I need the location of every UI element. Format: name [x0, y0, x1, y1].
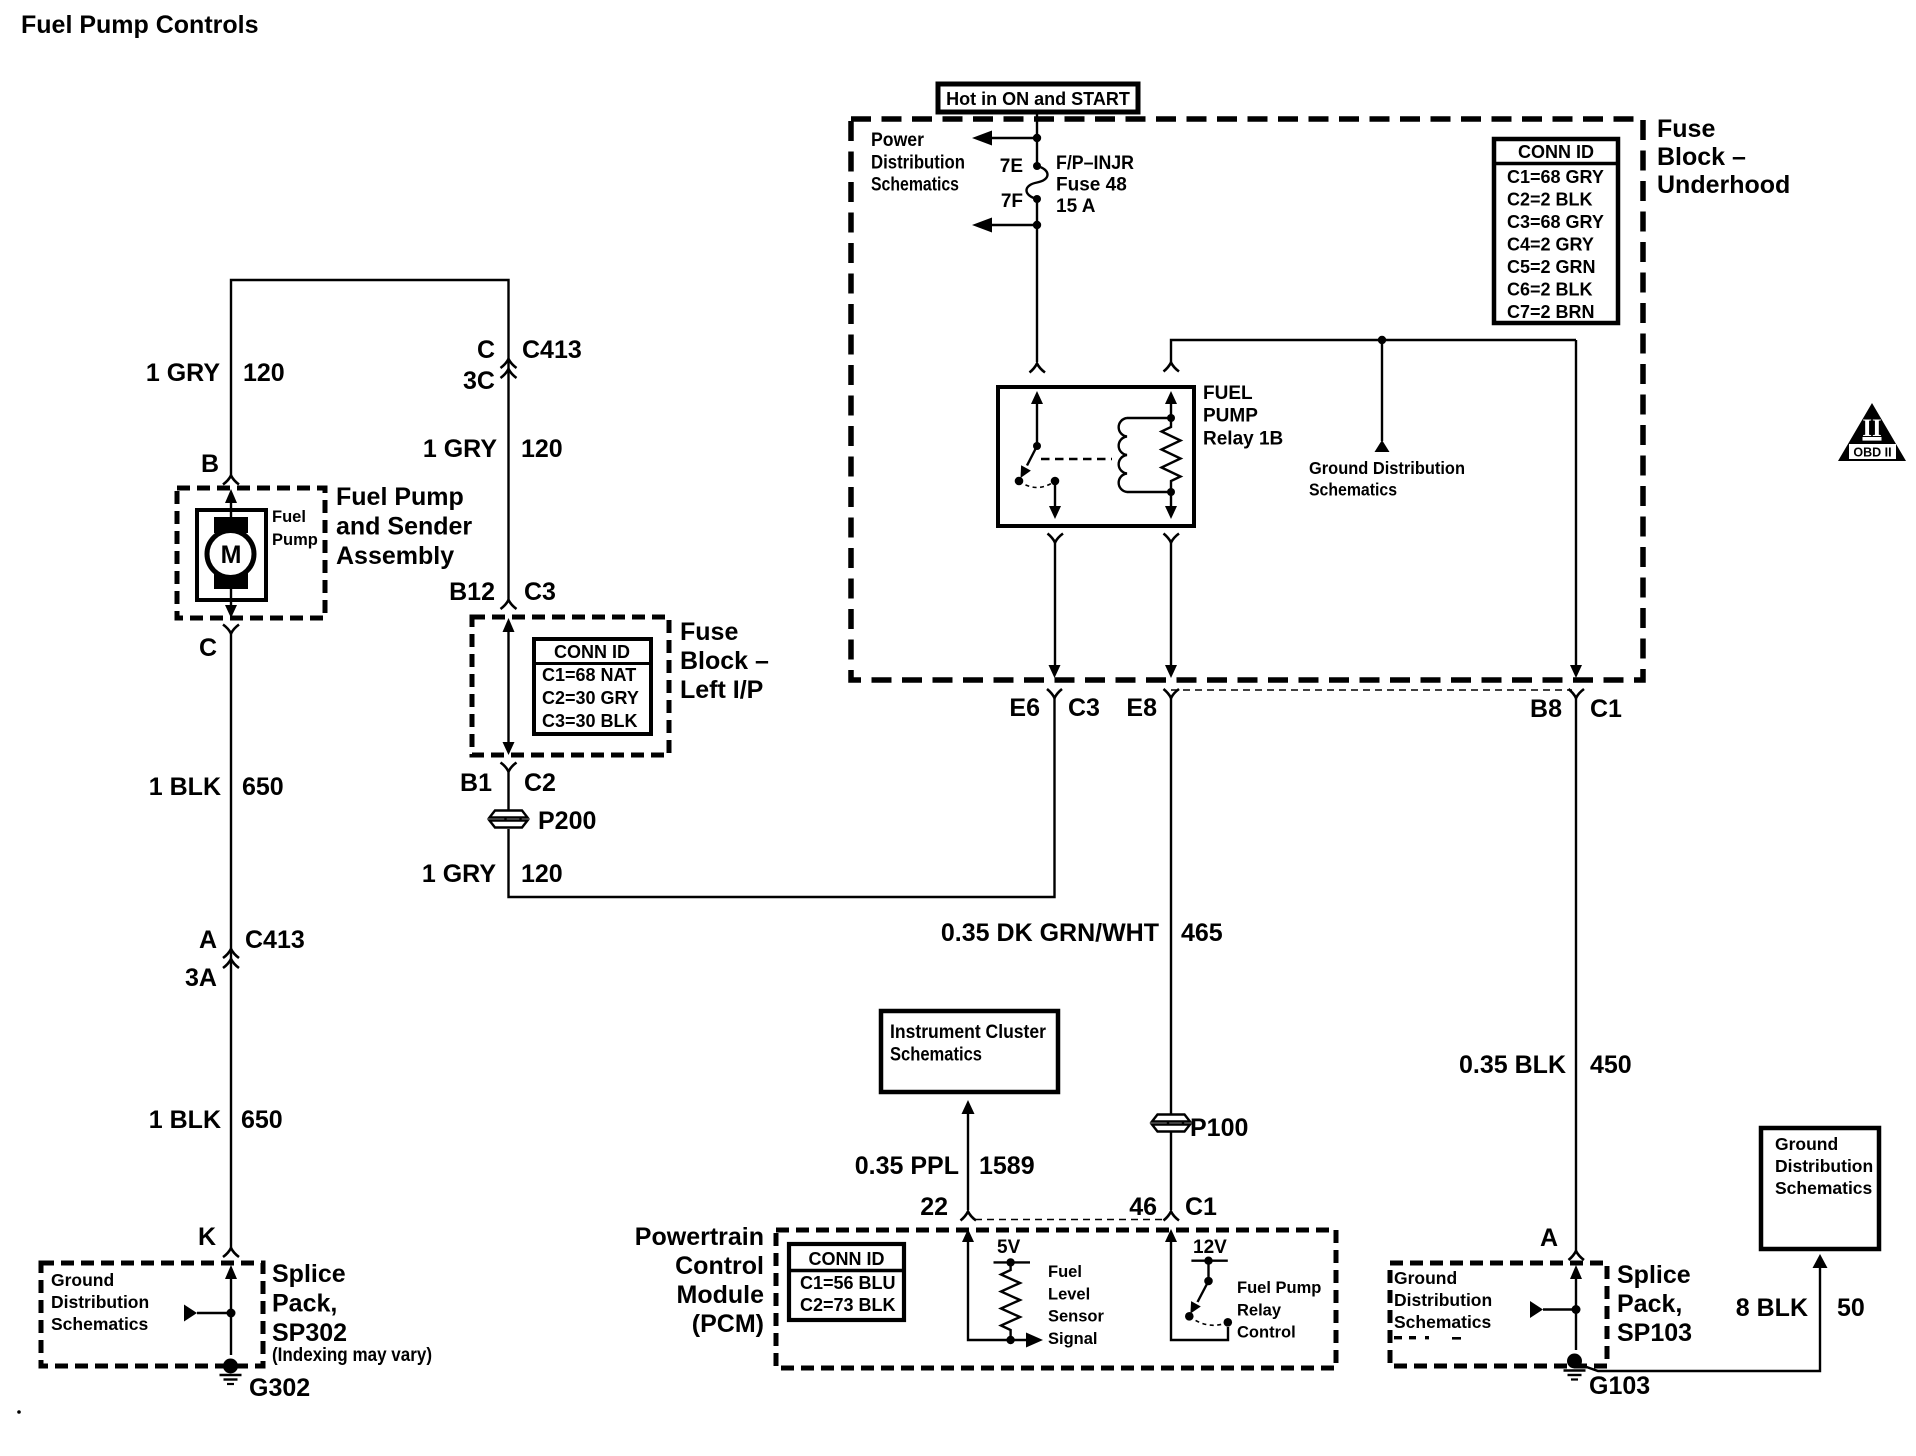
connector chevron B8: [1569, 689, 1585, 698]
wire arrow entering SP302: [230, 1277, 232, 1355]
svg-text:B8: B8: [1530, 695, 1562, 723]
svg-text:C6=2 BLK: C6=2 BLK: [1507, 280, 1593, 300]
svg-text:650: 650: [241, 1106, 283, 1134]
wire: 8 BLK 50 to ground distribution: [1578, 1268, 1820, 1371]
connector chevron above relay left terminal: [1030, 364, 1046, 373]
svg-text:M: M: [221, 541, 242, 569]
label: 1 BLK 650 (lower): [149, 1106, 283, 1134]
label: 1 BLK 650 (upper): [149, 773, 284, 801]
relay blade swing arc (dashed): [1019, 481, 1055, 488]
svg-text:0.35 DK GRN/WHT: 0.35 DK GRN/WHT: [941, 919, 1159, 947]
wire: C413 down to K: [230, 968, 232, 1248]
svg-text:0.35 PPL: 0.35 PPL: [855, 1152, 959, 1180]
svg-text:3C: 3C: [463, 367, 495, 395]
svg-text:A: A: [1540, 1224, 1558, 1252]
switch blade: fuel pump relay control: [1198, 1281, 1209, 1302]
svg-text:7F: 7F: [1001, 191, 1023, 212]
relay switch output arrow down: [1054, 481, 1056, 506]
connector chevron at 22: [961, 1212, 977, 1221]
arrow up into instrument cluster: [962, 1100, 975, 1114]
svg-text:C413: C413: [522, 336, 582, 364]
triangle arrow into ground distribution box: [1813, 1254, 1828, 1268]
svg-text:E8: E8: [1126, 694, 1157, 722]
wire: P100 down to 46: [1170, 1132, 1172, 1210]
chevron below relay coil terminal: [1164, 534, 1180, 543]
connector chevron above relay right terminal: [1164, 363, 1180, 372]
label: 1 GRY 120 (right branch): [423, 435, 563, 463]
svg-text:C2=2 BLK: C2=2 BLK: [1507, 190, 1593, 210]
svg-text:3A: 3A: [185, 964, 217, 992]
switch swing arc (dashed): [1189, 1316, 1228, 1325]
relay actuation dashed link: [1041, 458, 1112, 460]
relay resistor: [1162, 418, 1181, 492]
label: 1 GRY 120 (upper left wire): [146, 359, 285, 387]
svg-text:120: 120: [521, 860, 563, 888]
svg-text:C2=30 GRY: C2=30 GRY: [542, 688, 639, 708]
splice arrow SP103: [1530, 1301, 1543, 1318]
svg-text:1 GRY: 1 GRY: [422, 860, 496, 888]
splice pack SP103 box (dashed): [1390, 1263, 1607, 1366]
label: pin A and connector C413: [199, 926, 305, 954]
inline connector C413 double chevron (top): [501, 359, 517, 378]
svg-text:SplicePack,SP103: SplicePack,SP103: [1617, 1261, 1692, 1347]
svg-text:8 BLK: 8 BLK: [1736, 1294, 1808, 1322]
wire through left I/P with arrows: [507, 631, 509, 742]
connector chevron at 46: [1164, 1212, 1180, 1221]
resistor: fuel level sensor: [1001, 1262, 1020, 1340]
5V supply bar: [994, 1261, 1031, 1263]
relay coil output arrow down: [1170, 492, 1172, 506]
connector face dashed line C1: [1171, 689, 1572, 691]
wire: B8 down to A: [1575, 698, 1577, 1251]
svg-text:1 BLK: 1 BLK: [149, 1106, 221, 1134]
svg-text:C3=30 BLK: C3=30 BLK: [542, 711, 638, 731]
truncated text marks: [1394, 1336, 1461, 1340]
svg-text:C1=56 BLU: C1=56 BLU: [800, 1273, 896, 1293]
svg-text:C1: C1: [1185, 1193, 1217, 1221]
wire: relay coil to E8: [1170, 543, 1172, 667]
svg-text:1 BLK: 1 BLK: [149, 773, 221, 801]
connector chevron at A: [1569, 1251, 1585, 1260]
svg-text:CONN ID: CONN ID: [809, 1249, 885, 1269]
label: pin B8 / connector C1: [1530, 695, 1622, 723]
connector chevron at B12: [501, 600, 517, 609]
svg-text:465: 465: [1181, 919, 1223, 947]
fuel pump motor M: [197, 510, 266, 600]
junction dot on top horizontal: [1378, 336, 1386, 344]
arrow to power distribution (upper): [991, 137, 1037, 139]
svg-text:1589: 1589: [979, 1152, 1035, 1180]
svg-text:C2: C2: [524, 769, 556, 797]
triangle to ground distribution: [1375, 440, 1390, 452]
label: 1 GRY 120 (below P200): [422, 860, 563, 888]
relay switch common arrow up: [1036, 403, 1038, 446]
12V supply bar: [1191, 1259, 1227, 1261]
svg-text:46: 46: [1129, 1193, 1157, 1221]
switch pivot stub: [1207, 1261, 1209, 1281]
wire: E8 down to P100: [1170, 698, 1172, 1114]
junction dot upper: [1033, 134, 1041, 142]
wire exiting motor with down arrow: [230, 589, 232, 605]
label: 0.35 DK GRN/WHT 465: [941, 919, 1223, 947]
svg-text:1 GRY: 1 GRY: [423, 435, 497, 463]
svg-text:SplicePack,SP302: SplicePack,SP302: [272, 1260, 347, 1347]
connector chevron at B1: [501, 763, 517, 772]
wire: top horizontal to B8 drop: [1171, 340, 1576, 362]
wire arrow entering PCM at 46: [1171, 1241, 1228, 1340]
relay coil terminal arrow up: [1170, 403, 1172, 418]
label: 0.35 PPL 1589: [855, 1152, 1035, 1180]
relay switch blade: [1027, 446, 1037, 466]
svg-text:A: A: [199, 926, 217, 954]
CONN ID table (left I/P): [534, 639, 651, 734]
fuse block underhood box (dashed): [851, 119, 1643, 680]
stray dot bottom left: [17, 1410, 21, 1414]
svg-text:G302: G302: [249, 1374, 310, 1402]
CONN ID table (underhood): [1494, 139, 1618, 323]
label: pin B1 / connector C2: [460, 769, 556, 797]
chevron below relay switch terminal: [1048, 534, 1064, 543]
svg-text:1 GRY: 1 GRY: [146, 359, 220, 387]
svg-text:50: 50: [1837, 1294, 1865, 1322]
hot in ON and START tag box: [938, 84, 1138, 112]
svg-text:C1: C1: [1590, 695, 1622, 723]
ground distribution schematics box (solid): [1761, 1128, 1879, 1249]
svg-text:22: 22: [920, 1193, 948, 1221]
svg-text:B: B: [201, 450, 219, 478]
ground G103: [1564, 1354, 1586, 1380]
wire: hot feed down to relay: [1036, 112, 1038, 362]
fuse block left I/P box (dashed): [472, 617, 669, 755]
svg-text:E6: E6: [1009, 694, 1040, 722]
svg-text:C3=68 GRY: C3=68 GRY: [1507, 212, 1604, 232]
connector chevron E6: [1047, 689, 1062, 698]
label: 0.35 BLK 450: [1459, 1051, 1632, 1079]
svg-text:CONN ID: CONN ID: [1518, 142, 1594, 162]
fuse F/P-INJR 48: [1027, 162, 1048, 203]
splice arrow SP302: [184, 1305, 197, 1322]
svg-text:C7=2 BRN: C7=2 BRN: [1507, 302, 1595, 322]
connector face dashed line PCM: [975, 1219, 1163, 1221]
wire: P200 down, across, and up to E6: [509, 698, 1055, 897]
connector chevron at B: [223, 476, 239, 485]
svg-text:C3: C3: [1068, 694, 1100, 722]
svg-text:C3: C3: [524, 578, 556, 606]
arrow to power distribution (lower): [991, 224, 1037, 226]
svg-text:C: C: [477, 336, 495, 364]
label: 8 BLK 50: [1736, 1294, 1865, 1322]
svg-text:650: 650: [242, 773, 284, 801]
svg-text:C5=2 GRN: C5=2 GRN: [1507, 257, 1596, 277]
ground G302: [220, 1359, 242, 1385]
svg-text:C413: C413: [245, 926, 305, 954]
svg-text:12V: 12V: [1193, 1237, 1227, 1258]
svg-text:450: 450: [1590, 1051, 1632, 1079]
svg-text:P200: P200: [538, 807, 596, 835]
wire: C down to C413: [230, 634, 232, 969]
instrument cluster schematics box: [881, 1011, 1058, 1092]
svg-text:C1=68 NAT: C1=68 NAT: [542, 665, 636, 685]
svg-text:K: K: [198, 1223, 216, 1251]
wire: ground distribution stub: [1381, 340, 1383, 441]
powertrain control module box (dashed): [776, 1230, 1336, 1368]
wire: C413 down to B12: [507, 358, 509, 600]
pass-through grommet P100: [1152, 1115, 1190, 1132]
wire: B8 drop with arrow: [1575, 340, 1577, 666]
svg-text:B12: B12: [449, 578, 495, 606]
wire: relay switch to E6: [1054, 543, 1056, 667]
svg-text:(Indexing may vary): (Indexing may vary): [272, 1345, 432, 1366]
svg-text:C: C: [199, 634, 217, 662]
wire arrow entering PCM at 22: [968, 1241, 1026, 1340]
CONN ID table (PCM): [789, 1244, 904, 1320]
relay coil: [1119, 418, 1171, 492]
svg-text:Hot in ON and START: Hot in ON and START: [946, 89, 1130, 109]
junction dot lower: [1033, 221, 1041, 229]
wire: top horizontal and verticals from fuel pump loop: [231, 280, 509, 476]
svg-text:7E: 7E: [1000, 156, 1023, 177]
inline connector C413 double chevron: [223, 949, 239, 968]
svg-text:C4=2 GRY: C4=2 GRY: [1507, 235, 1594, 255]
svg-text:120: 120: [243, 359, 285, 387]
label: pin 46 / connector C1: [1129, 1193, 1217, 1221]
svg-text:0.35 BLK: 0.35 BLK: [1459, 1051, 1566, 1079]
svg-text:P100: P100: [1190, 1114, 1248, 1142]
label: pin E6 / connector C3: [1009, 694, 1100, 722]
relay box: [998, 387, 1194, 526]
wire: down from arrow to 22: [967, 1114, 969, 1210]
svg-text:C2=73 BLK: C2=73 BLK: [800, 1295, 896, 1315]
arrow right: fuel level sensor signal: [1026, 1333, 1043, 1348]
svg-text:B1: B1: [460, 769, 492, 797]
wire arrow entering assembly: [230, 501, 232, 517]
component box: Fuel Pump and Sender Assembly (dashed): [177, 488, 325, 618]
svg-text:Fuel Pump Controls: Fuel Pump Controls: [21, 11, 259, 39]
connector chevron at C: [223, 625, 239, 634]
connector chevron at K: [223, 1248, 239, 1257]
wire arrow entering SP103: [1575, 1277, 1577, 1350]
svg-text:OBD II: OBD II: [1853, 446, 1891, 460]
wire: B1 to P200: [507, 772, 509, 811]
splice pack SP302 box (dashed): [41, 1263, 263, 1366]
svg-text:C1=68 GRY: C1=68 GRY: [1507, 167, 1604, 187]
svg-text:G103: G103: [1589, 1372, 1650, 1400]
junction dot at sensor signal: [1006, 1336, 1014, 1344]
svg-text:120: 120: [521, 435, 563, 463]
svg-text:CONN ID: CONN ID: [554, 642, 630, 662]
label: pin C / connector C413 (top): [477, 336, 582, 364]
svg-text:Fuel Pumpand SenderAssembly: Fuel Pumpand SenderAssembly: [336, 483, 472, 570]
label: pin B12 / connector C3: [449, 578, 556, 606]
svg-text:5V: 5V: [997, 1237, 1021, 1258]
pass-through grommet P200: [490, 811, 528, 828]
connector chevron E8: [1164, 689, 1180, 698]
